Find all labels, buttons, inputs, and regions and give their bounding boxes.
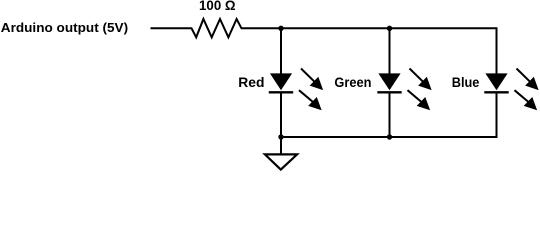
svg-text:Blue: Blue [452, 74, 480, 90]
svg-text:Red: Red [238, 74, 264, 90]
svg-text:Arduino output (5V): Arduino output (5V) [1, 20, 128, 35]
svg-text:Green: Green [334, 74, 371, 90]
svg-text:100 Ω: 100 Ω [199, 0, 236, 13]
